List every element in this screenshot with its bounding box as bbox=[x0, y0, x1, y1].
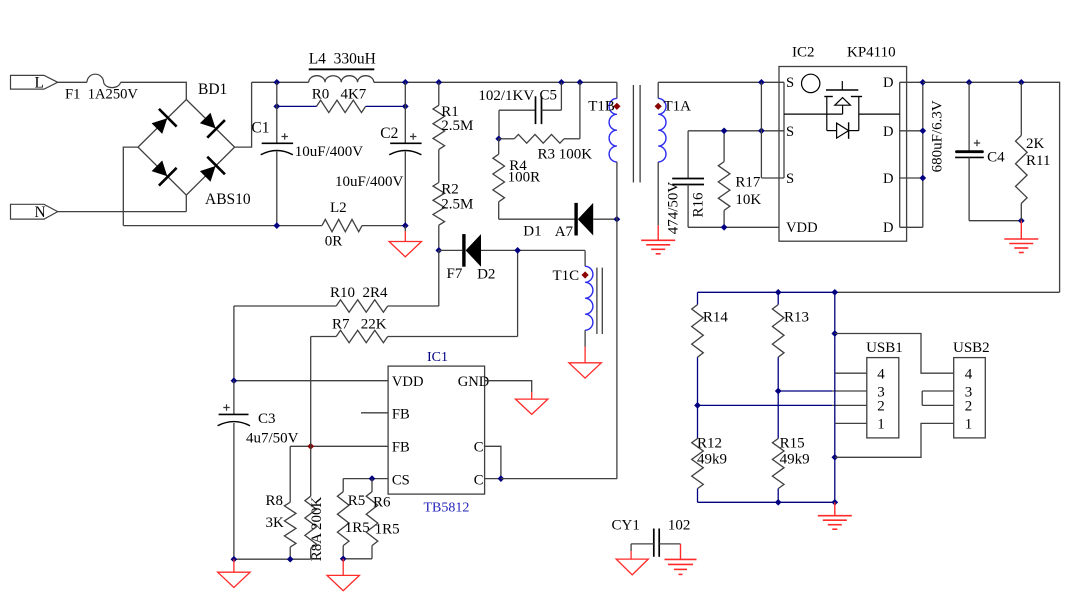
wire (S1 row) bbox=[658, 81, 784, 83]
junction bbox=[775, 499, 782, 506]
svg-text:L: L bbox=[35, 75, 44, 92]
wire (D+ net) bbox=[698, 404, 833, 406]
svg-text:L4 330uH: L4 330uH bbox=[309, 50, 376, 67]
svg-text:C2: C2 bbox=[380, 125, 398, 142]
svg-text:1: 1 bbox=[965, 417, 973, 433]
svg-text:FB: FB bbox=[392, 440, 410, 456]
resistor R15 bbox=[777, 391, 779, 439]
input terminal L bbox=[11, 75, 58, 89]
resistor R0 bbox=[317, 100, 366, 112]
svg-text:A7: A7 bbox=[555, 224, 574, 240]
svg-text:N: N bbox=[35, 204, 46, 221]
junction bbox=[614, 216, 621, 223]
capacitor C5 bbox=[499, 109, 536, 111]
wire bbox=[234, 558, 311, 560]
wire bbox=[366, 105, 406, 107]
wire (VDD row) bbox=[688, 226, 779, 228]
svg-text:100R: 100R bbox=[508, 170, 541, 186]
svg-text:R0 4K7: R0 4K7 bbox=[312, 86, 367, 102]
ground (USB, earth) bbox=[834, 502, 836, 515]
junction bbox=[1018, 79, 1025, 86]
junction bbox=[369, 475, 376, 482]
resistor R17 bbox=[723, 131, 725, 162]
wire (D2 stub) bbox=[900, 130, 923, 132]
wire bbox=[657, 162, 659, 225]
junction bbox=[435, 247, 442, 254]
svg-text:R7 22K: R7 22K bbox=[332, 317, 387, 333]
connector USB2 bbox=[954, 358, 986, 438]
junction bbox=[435, 79, 442, 86]
svg-text:FB: FB bbox=[392, 407, 410, 423]
svg-text:49k9: 49k9 bbox=[697, 452, 727, 468]
svg-text:F1 1A250V: F1 1A250V bbox=[65, 87, 138, 103]
resistor R13 bbox=[777, 292, 779, 304]
wire (D3 stub) bbox=[900, 177, 923, 179]
svg-text:R11: R11 bbox=[1026, 153, 1050, 169]
svg-text:R14: R14 bbox=[703, 310, 729, 326]
svg-text:49k9: 49k9 bbox=[780, 452, 810, 468]
polarity dot T1C bbox=[582, 271, 589, 278]
wire (D bus) bbox=[922, 82, 924, 227]
svg-text:4: 4 bbox=[965, 367, 973, 383]
wire (S bus) bbox=[760, 82, 762, 178]
svg-text:TB5812: TB5812 bbox=[424, 501, 470, 516]
svg-text:102/1KV: 102/1KV bbox=[478, 88, 534, 104]
op-amp U-IC2 box (KP4110) bbox=[779, 67, 907, 242]
wire (USB1 pin4) bbox=[835, 372, 867, 374]
junction bbox=[402, 103, 409, 110]
transistor Q (MOSFET inside IC2) bbox=[841, 81, 843, 90]
svg-text:680uF/6.3V: 680uF/6.3V bbox=[929, 100, 945, 172]
svg-text:R6: R6 bbox=[373, 495, 391, 511]
svg-text:R3 100K: R3 100K bbox=[538, 147, 593, 163]
resistor R2 bbox=[433, 183, 445, 226]
svg-text:T1B: T1B bbox=[588, 99, 615, 115]
junction bbox=[831, 330, 838, 337]
svg-text:F7: F7 bbox=[447, 266, 463, 282]
resistor R10 bbox=[234, 305, 336, 307]
svg-text:R8A 200K: R8A 200K bbox=[309, 497, 325, 562]
wire bbox=[832, 390, 867, 392]
junction bbox=[577, 79, 584, 86]
diode D2 (F7) bbox=[462, 234, 465, 267]
resistor R6 bbox=[371, 479, 373, 492]
wire (C pins) bbox=[485, 446, 501, 478]
wire (FB2 row) bbox=[290, 445, 388, 447]
junction bbox=[831, 499, 838, 506]
resistor R11 bbox=[1020, 82, 1022, 135]
junction bbox=[694, 402, 701, 409]
svg-text:2: 2 bbox=[877, 399, 885, 415]
capacitor CY1 bbox=[653, 529, 655, 557]
wire bbox=[310, 337, 312, 447]
ground (C2 node) bbox=[404, 226, 406, 231]
resistor R12 bbox=[697, 405, 699, 438]
junction (FB2 node) bbox=[307, 443, 314, 450]
svg-text:R17: R17 bbox=[735, 175, 761, 191]
svg-text:4: 4 bbox=[877, 367, 885, 383]
ground (CY1 left) bbox=[630, 544, 632, 551]
junction bbox=[231, 556, 238, 563]
wire bbox=[252, 81, 309, 83]
junction bbox=[273, 103, 280, 110]
svg-text:D: D bbox=[883, 171, 894, 187]
ground (CY1 right, earth) bbox=[680, 544, 682, 560]
junction bbox=[1018, 217, 1025, 224]
wire bbox=[584, 330, 586, 346]
junction bbox=[831, 454, 838, 461]
svg-text:L2: L2 bbox=[330, 200, 347, 216]
wire bbox=[58, 211, 187, 213]
wire (VDD) bbox=[234, 380, 388, 382]
ground (T1C) bbox=[584, 347, 586, 363]
svg-text:CS: CS bbox=[392, 472, 410, 488]
resistor R7 bbox=[311, 336, 337, 338]
junction bbox=[775, 388, 782, 395]
capacitor C1 bbox=[276, 82, 278, 143]
IC1 box (TB5812) bbox=[388, 366, 485, 494]
wire (D4 stub) bbox=[900, 226, 923, 228]
svg-text:R12: R12 bbox=[697, 436, 722, 452]
junction bbox=[514, 247, 521, 254]
junction bbox=[758, 79, 765, 86]
svg-text:D: D bbox=[883, 75, 894, 91]
wire (D1 stub) bbox=[900, 81, 923, 83]
ground (output, earth) bbox=[1020, 221, 1022, 239]
svg-text:2K: 2K bbox=[1026, 136, 1045, 152]
wire bbox=[277, 105, 317, 107]
junction bbox=[919, 79, 926, 86]
svg-text:C: C bbox=[474, 440, 484, 456]
wire bbox=[438, 225, 440, 250]
svg-text:R15: R15 bbox=[780, 436, 805, 452]
svg-text:BD1: BD1 bbox=[198, 81, 227, 98]
resistor R1 bbox=[438, 82, 440, 105]
svg-text:C3: C3 bbox=[258, 411, 276, 427]
svg-text:10uF/400V: 10uF/400V bbox=[335, 174, 404, 190]
wire bbox=[481, 249, 585, 251]
svg-text:3K: 3K bbox=[266, 515, 285, 531]
svg-text:S: S bbox=[786, 171, 794, 187]
polarity dot T1A bbox=[655, 103, 662, 110]
wire (USB2 gnd feed) bbox=[835, 423, 954, 457]
junction bbox=[966, 79, 973, 86]
transformer core bbox=[632, 85, 634, 183]
junction bbox=[402, 79, 409, 86]
svg-text:GND: GND bbox=[458, 374, 490, 390]
wire (output rail) bbox=[923, 82, 1060, 292]
junction bbox=[919, 127, 926, 134]
svg-text:T1A: T1A bbox=[664, 99, 692, 115]
svg-text:ABS10: ABS10 bbox=[205, 191, 251, 208]
transformer winding T1A bbox=[657, 82, 659, 98]
svg-text:2: 2 bbox=[965, 399, 973, 415]
wire (USB1 pin1) bbox=[835, 422, 867, 424]
svg-text:0R: 0R bbox=[325, 233, 343, 249]
svg-text:USB2: USB2 bbox=[953, 340, 990, 356]
wire (USB2 top feed) bbox=[835, 334, 954, 374]
junction bbox=[495, 135, 502, 142]
svg-text:1R5: 1R5 bbox=[375, 522, 400, 538]
wire bbox=[499, 218, 575, 220]
junction bbox=[273, 79, 280, 86]
resistor R14 bbox=[697, 292, 699, 304]
junction bbox=[775, 289, 782, 296]
wire (CS row) bbox=[343, 478, 388, 480]
wire (bottom rail) bbox=[123, 225, 322, 227]
resistor R4 bbox=[498, 139, 500, 154]
svg-text:R5: R5 bbox=[348, 493, 366, 509]
wire bbox=[498, 110, 500, 139]
junction bbox=[273, 222, 280, 229]
wire (D- net) bbox=[778, 390, 832, 392]
svg-text:KP4110: KP4110 bbox=[847, 45, 896, 61]
svg-text:2.5M: 2.5M bbox=[441, 118, 473, 134]
wire (gnd rail) bbox=[698, 501, 835, 503]
junction bbox=[340, 555, 347, 562]
svg-text:1: 1 bbox=[877, 417, 885, 433]
svg-text:IC1: IC1 bbox=[427, 350, 448, 365]
transformer winding T1B bbox=[616, 82, 618, 98]
svg-text:10K: 10K bbox=[735, 192, 761, 208]
svg-text:S: S bbox=[786, 124, 794, 140]
wire (USB2 D short) bbox=[922, 391, 954, 405]
wire bbox=[58, 81, 87, 83]
svg-text:4u7/50V: 4u7/50V bbox=[246, 430, 299, 446]
resistor R3 bbox=[499, 138, 515, 140]
capacitor C2 bbox=[404, 82, 406, 143]
ground (C3) bbox=[233, 559, 235, 572]
junction bbox=[287, 556, 294, 563]
wire (GND pin) bbox=[485, 381, 532, 392]
junction bbox=[498, 475, 505, 482]
wire bbox=[439, 249, 462, 251]
wire bbox=[593, 218, 617, 220]
ground (T1A, earth) bbox=[657, 225, 659, 240]
wire (+5V rail) bbox=[698, 291, 835, 293]
svg-text:T1C: T1C bbox=[553, 268, 580, 284]
wire bbox=[835, 291, 1060, 293]
input terminal N bbox=[11, 204, 58, 219]
wire bbox=[616, 162, 618, 479]
wire bbox=[185, 195, 187, 212]
junction bbox=[831, 289, 838, 296]
transformer winding T1C bbox=[584, 250, 586, 266]
wire bbox=[233, 306, 235, 381]
ground (R5/R6) bbox=[342, 559, 344, 576]
IC2 inner circle bbox=[802, 74, 820, 92]
svg-text:S: S bbox=[786, 75, 794, 91]
svg-text:102: 102 bbox=[668, 517, 691, 533]
wire bbox=[235, 82, 252, 147]
wire bbox=[832, 404, 867, 406]
capacitor 474/50V bbox=[687, 131, 689, 179]
wire bbox=[123, 147, 138, 226]
wire (S2 row) bbox=[688, 130, 784, 132]
svg-text:IC2: IC2 bbox=[792, 45, 815, 61]
capacitor C4 bbox=[968, 82, 970, 151]
capacitor C3 bbox=[233, 381, 235, 415]
inductor L4 bbox=[309, 76, 374, 83]
transformer core (T1C) bbox=[596, 268, 598, 334]
wire (+5V drop) bbox=[834, 292, 836, 502]
junction bbox=[558, 79, 565, 86]
svg-text:10uF/400V: 10uF/400V bbox=[295, 144, 364, 160]
wire bbox=[343, 558, 372, 560]
svg-text:VDD: VDD bbox=[786, 220, 818, 236]
svg-text:C4: C4 bbox=[987, 150, 1005, 166]
svg-text:C: C bbox=[474, 472, 484, 488]
wire (FB stub) bbox=[361, 412, 388, 414]
junction bbox=[919, 175, 926, 182]
svg-text:474/50V: 474/50V bbox=[665, 182, 681, 235]
wire bbox=[374, 81, 617, 83]
junction bbox=[721, 224, 728, 231]
svg-text:VDD: VDD bbox=[392, 374, 424, 390]
svg-text:USB1: USB1 bbox=[866, 340, 903, 356]
resistor L2 (0R) bbox=[322, 219, 362, 231]
ground (IC1 GND) bbox=[531, 392, 533, 399]
connector USB1 bbox=[867, 358, 899, 438]
wire bbox=[501, 478, 617, 480]
bridge rectifier BD1 bbox=[138, 100, 235, 196]
diode D1 (A7) bbox=[574, 203, 577, 236]
wire bbox=[121, 82, 187, 99]
svg-text:C5: C5 bbox=[540, 87, 558, 103]
svg-text:R8: R8 bbox=[266, 493, 284, 509]
svg-text:R13: R13 bbox=[784, 310, 809, 326]
junction bbox=[758, 127, 765, 134]
svg-text:1R5: 1R5 bbox=[345, 520, 370, 536]
junction bbox=[231, 377, 238, 384]
svg-text:CY1: CY1 bbox=[612, 517, 640, 533]
svg-text:D: D bbox=[883, 124, 894, 140]
junction bbox=[402, 222, 409, 229]
polarity dot T1B bbox=[613, 103, 620, 110]
resistor R5 bbox=[342, 479, 344, 492]
wire bbox=[362, 225, 405, 227]
wire bbox=[969, 220, 1021, 222]
svg-text:C1: C1 bbox=[251, 120, 269, 137]
wire (S3 stub) bbox=[761, 177, 784, 179]
resistor R8 bbox=[289, 446, 291, 502]
svg-text:D2: D2 bbox=[477, 267, 495, 283]
svg-text:R2: R2 bbox=[441, 182, 459, 198]
svg-text:R16: R16 bbox=[691, 192, 707, 218]
fuse F1 bbox=[87, 74, 121, 87]
resistor R8A bbox=[310, 446, 312, 496]
wire bbox=[438, 149, 440, 182]
svg-text:2.5M: 2.5M bbox=[441, 197, 473, 213]
svg-text:D1: D1 bbox=[523, 223, 541, 239]
svg-text:R10 2R4: R10 2R4 bbox=[330, 285, 388, 301]
svg-text:D: D bbox=[883, 220, 894, 236]
junction bbox=[721, 127, 728, 134]
